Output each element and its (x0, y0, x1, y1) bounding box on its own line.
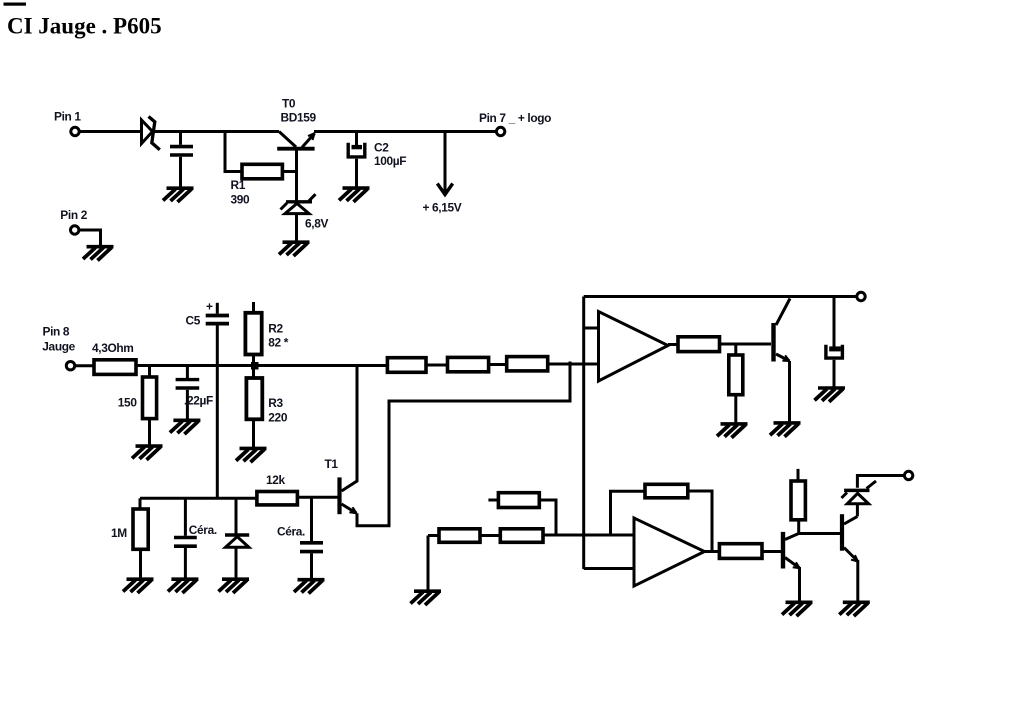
svg-text:Pin 8: Pin 8 (43, 325, 70, 339)
svg-text:4,3Ohm: 4,3Ohm (92, 341, 134, 355)
svg-text:R3: R3 (268, 396, 283, 410)
svg-text:.22µF: .22µF (184, 394, 213, 408)
svg-text:CI Jauge . P605: CI Jauge . P605 (7, 14, 162, 39)
svg-text:220: 220 (268, 411, 288, 425)
svg-text:R1: R1 (231, 178, 246, 192)
svg-text:+ 6,15V: + 6,15V (423, 201, 462, 215)
svg-text:82 *: 82 * (268, 336, 288, 350)
svg-text:Céra.: Céra. (189, 523, 217, 537)
svg-text:150: 150 (118, 396, 138, 410)
svg-text:Pin 2: Pin 2 (60, 208, 87, 222)
svg-text:Pin 7 _ + logo: Pin 7 _ + logo (479, 111, 551, 125)
svg-text:T0: T0 (282, 97, 296, 111)
svg-text:C2: C2 (374, 141, 389, 155)
svg-text:BD159: BD159 (281, 111, 317, 125)
svg-text:C5: C5 (186, 314, 201, 328)
svg-text:Pin 1: Pin 1 (54, 110, 81, 124)
svg-text:100µF: 100µF (374, 154, 406, 168)
svg-text:T1: T1 (325, 457, 339, 471)
svg-text:1M: 1M (111, 526, 127, 540)
svg-text:Céra.: Céra. (277, 525, 305, 539)
svg-text:R2: R2 (268, 322, 283, 336)
svg-text:12k: 12k (266, 473, 286, 487)
svg-text:+: + (206, 300, 213, 314)
svg-text:6,8V: 6,8V (305, 217, 328, 231)
svg-text:Jauge: Jauge (42, 340, 75, 354)
svg-text:390: 390 (231, 193, 251, 207)
